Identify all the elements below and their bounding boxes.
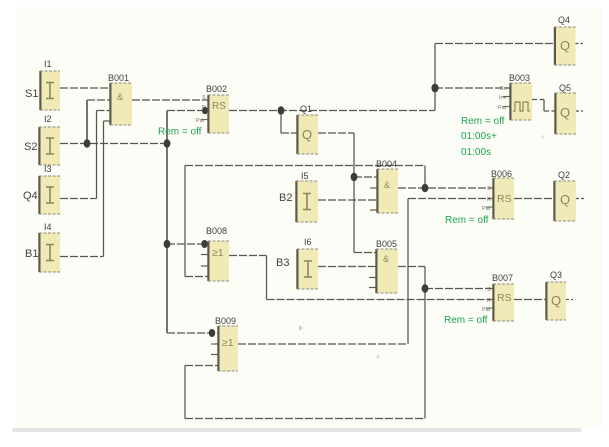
svg-text:≥1: ≥1	[222, 337, 234, 349]
svg-text:R: R	[202, 105, 206, 111]
AND gate B004	[376, 159, 398, 213]
svg-text:S1: S1	[25, 88, 38, 100]
svg-text:I2: I2	[44, 114, 52, 124]
RS latch B007	[482, 273, 514, 321]
svg-text:RS: RS	[497, 193, 512, 205]
wire B003 out to Q5	[532, 100, 555, 112]
svg-text:Rem = off: Rem = off	[444, 315, 488, 326]
svg-text:Rem = off: Rem = off	[445, 215, 489, 226]
svg-text:I1: I1	[44, 59, 52, 69]
wire B005 out to B007 S and feedback to B009	[185, 267, 493, 419]
svg-text:B007: B007	[492, 273, 513, 283]
svg-text:RS: RS	[497, 292, 512, 304]
svg-text:B001: B001	[108, 73, 129, 83]
svg-text:Rem = off: Rem = off	[158, 127, 202, 138]
AND gate B005	[375, 239, 398, 293]
input block I5 (B2)	[279, 171, 318, 222]
svg-text:B3: B3	[276, 257, 289, 269]
svg-text:Q4: Q4	[23, 190, 38, 202]
output stubs Q blocks	[566, 44, 584, 300]
svg-text:R: R	[487, 197, 491, 203]
wire B006 out to Q2	[514, 198, 554, 200]
svg-text:Rem = off: Rem = off	[461, 116, 505, 127]
svg-text:≥1: ≥1	[212, 247, 224, 259]
svg-text:B002: B002	[206, 84, 227, 94]
AND gate B001	[108, 73, 132, 125]
svg-text:Par: Par	[196, 118, 205, 124]
svg-text:Q: Q	[560, 38, 570, 53]
scan bottom smudge	[12, 428, 582, 432]
svg-text:Par: Par	[482, 206, 491, 212]
svg-text:01:00s+: 01:00s+	[461, 131, 497, 142]
wire I2 net horizontal	[60, 100, 218, 333]
svg-text:B009: B009	[215, 316, 236, 326]
RS latch B002	[196, 84, 229, 133]
wire B008 out to B007 R	[229, 256, 493, 300]
svg-text:4: 4	[376, 354, 380, 361]
wire I3 to B001	[60, 111, 110, 199]
svg-text:B008: B008	[206, 226, 227, 236]
svg-text:Q3: Q3	[550, 270, 562, 280]
RS latch B006	[482, 169, 514, 219]
svg-text:R: R	[487, 298, 491, 304]
svg-text:I6: I6	[304, 237, 312, 247]
svg-text:Par: Par	[482, 307, 491, 313]
output block Q2	[553, 170, 576, 221]
svg-text:Inv: Inv	[499, 95, 507, 101]
input block I2 (S2)	[24, 114, 60, 165]
wire B002 out to Q4 / B003	[229, 44, 555, 134]
svg-text:B2: B2	[279, 192, 292, 204]
svg-text:I4: I4	[44, 222, 52, 232]
wire B009 out to B006 R	[238, 199, 493, 345]
svg-text:B003: B003	[509, 73, 530, 83]
svg-text:Q: Q	[302, 127, 312, 142]
OR gate B009	[215, 316, 238, 371]
output block Q3	[545, 270, 566, 320]
svg-text:Q: Q	[560, 192, 570, 207]
wire B004 out to B006 S and feedback to B008	[185, 166, 493, 277]
OR gate B008	[206, 226, 229, 281]
svg-text:&: &	[384, 180, 390, 190]
svg-text:Par: Par	[498, 105, 507, 111]
input block I1 (S1)	[25, 59, 60, 110]
svg-text:01:00s: 01:00s	[461, 147, 491, 158]
scan speck artifacts	[299, 325, 303, 331]
input block I4 (B1)	[25, 222, 60, 272]
svg-text:Q4: Q4	[558, 15, 570, 25]
svg-text:S: S	[487, 186, 491, 192]
wire B007 out to Q3	[514, 299, 546, 301]
svg-text:Q5: Q5	[559, 83, 571, 93]
wire Q1 out to B004/B005	[318, 133, 377, 253]
svg-text:Q1: Q1	[300, 104, 312, 114]
svg-text:En: En	[500, 86, 507, 92]
svg-text:I5: I5	[301, 171, 309, 181]
wire I4 to B001	[60, 121, 110, 257]
input block I3 (Q4)	[23, 164, 60, 214]
svg-text:B1: B1	[25, 248, 38, 260]
wire I5 to B004	[318, 199, 377, 201]
svg-text:B005: B005	[376, 239, 397, 249]
svg-text:S: S	[202, 95, 206, 101]
input block I6 (B3)	[276, 237, 318, 289]
svg-text:Q2: Q2	[558, 170, 570, 180]
pulse relay B003	[498, 73, 532, 120]
svg-text:RS: RS	[212, 101, 226, 112]
svg-text:&: &	[383, 254, 389, 264]
wire I2 net verticals	[87, 100, 167, 333]
output block Q1	[296, 104, 318, 154]
output block Q4	[554, 15, 576, 65]
svg-text:&: &	[117, 92, 123, 102]
svg-text:Q: Q	[551, 293, 561, 308]
svg-text:Q: Q	[560, 105, 570, 120]
svg-text:I3: I3	[44, 164, 52, 174]
svg-text:S2: S2	[24, 141, 37, 153]
svg-text:B006: B006	[491, 169, 512, 179]
output block Q5	[554, 83, 576, 134]
wire I1 to B001	[60, 87, 110, 89]
unconnected input stubs	[201, 97, 510, 355]
svg-text:B004: B004	[376, 159, 397, 169]
wire B001 out to B002 S	[132, 99, 208, 101]
wire I6 to B005	[318, 266, 376, 268]
svg-text:S: S	[487, 287, 491, 293]
